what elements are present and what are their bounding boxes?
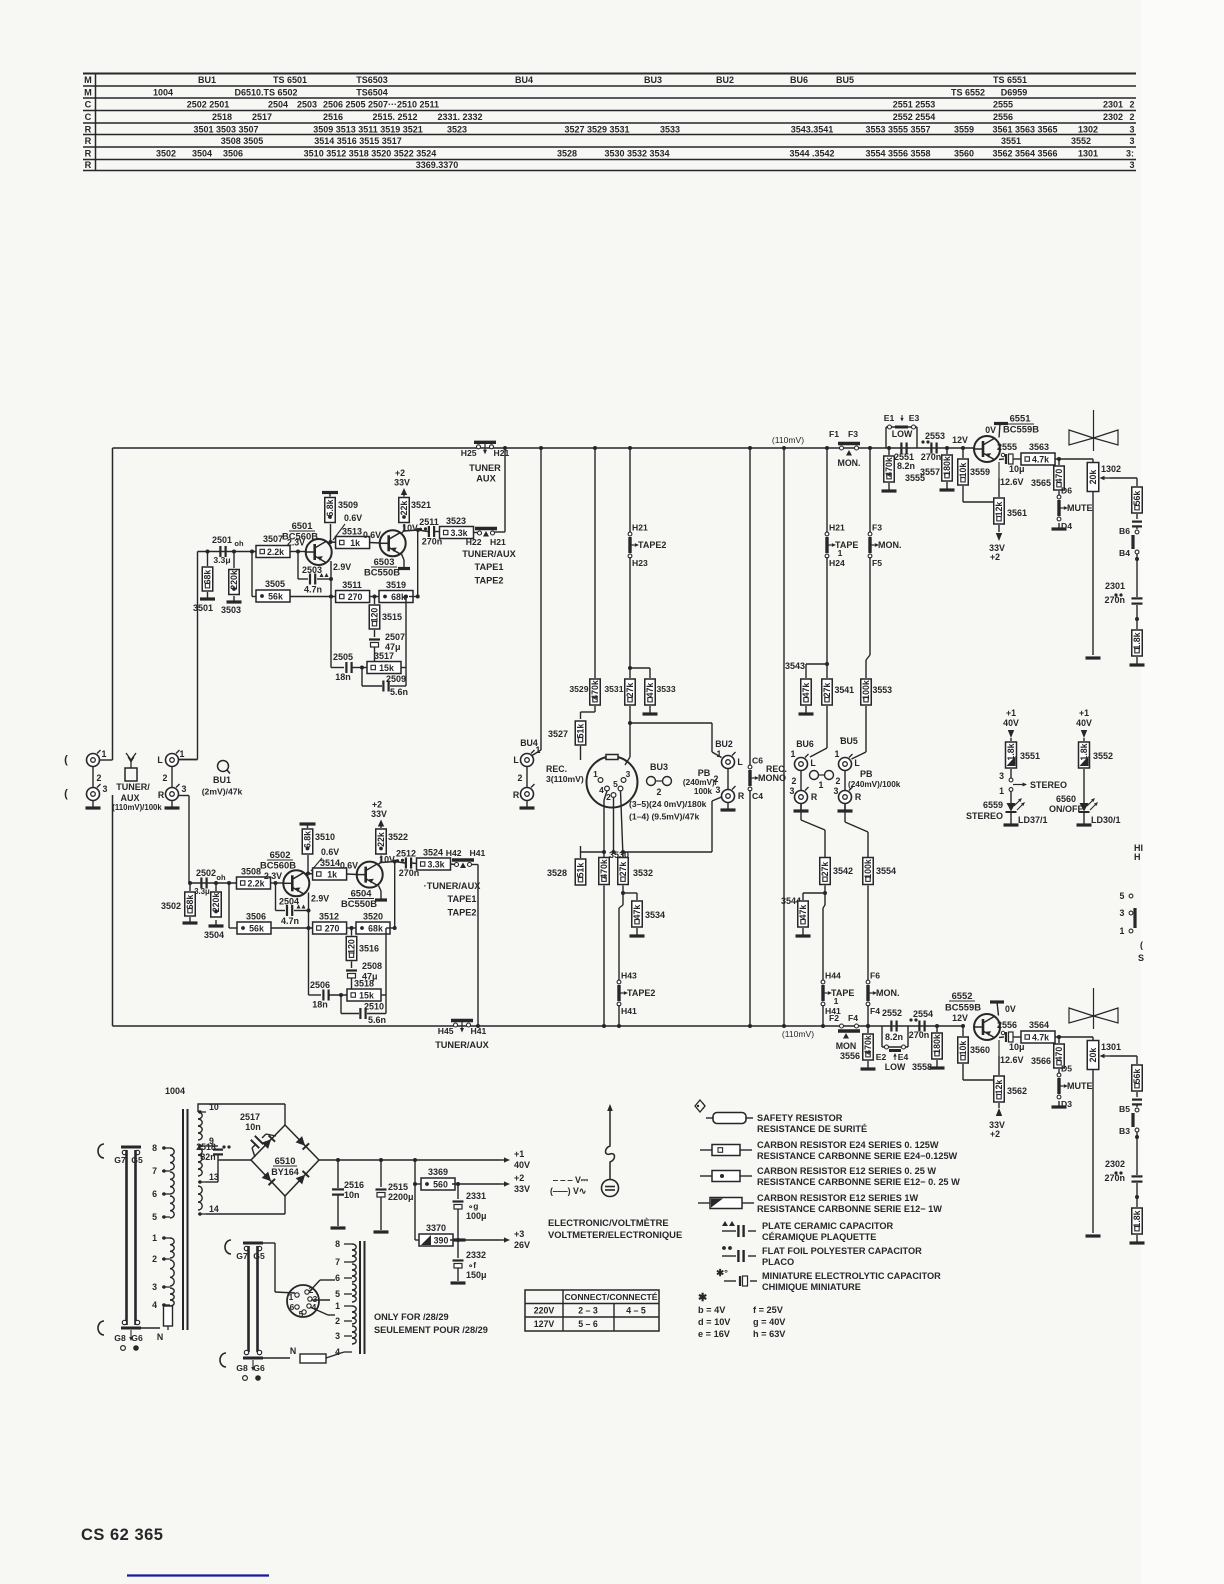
svg-text:H21: H21: [829, 523, 845, 533]
svg-text:d = 10V: d = 10V: [698, 1317, 731, 1327]
resistor 3514 1k: [308, 873, 317, 876]
svg-text:3521: 3521: [411, 500, 431, 510]
svg-text:3558: 3558: [912, 1062, 932, 1072]
connector BU4 R pin3: [521, 788, 534, 801]
svg-text:3370: 3370: [426, 1223, 446, 1233]
svg-text:20k: 20k: [1088, 1048, 1098, 1063]
svg-text:5 – 6: 5 – 6: [578, 1319, 598, 1329]
wire +3 rail: [450, 1239, 500, 1241]
svg-text:G8: G8: [236, 1363, 248, 1373]
svg-text:3.3μ: 3.3μ: [213, 555, 230, 565]
svg-text:270n: 270n: [1104, 1173, 1125, 1183]
wire 3541 to BU6: [826, 706, 828, 748]
svg-text:TS 6552: TS 6552: [951, 87, 985, 97]
svg-text:BC550B: BC550B: [341, 898, 377, 909]
svg-text:5: 5: [299, 1309, 304, 1319]
svg-text:3520: 3520: [363, 912, 383, 922]
svg-text:F4: F4: [870, 1006, 880, 1016]
svg-text:0.6V: 0.6V: [344, 513, 362, 523]
svg-text:BY164: BY164: [271, 1167, 299, 1177]
svg-text:4 – 5: 4 – 5: [626, 1306, 646, 1316]
svg-text:100k: 100k: [694, 787, 713, 796]
switch head C6/MONO/C4: [748, 770, 751, 786]
antenna symbol: [125, 768, 137, 781]
svg-text:MUTE: MUTE: [1067, 503, 1093, 513]
svg-text:2: 2: [606, 792, 611, 802]
ground 3533: [649, 706, 651, 714]
svg-text:F4: F4: [848, 1013, 858, 1023]
svg-text:2301: 2301: [1103, 99, 1123, 109]
svg-text:CARBON RESISTOR E12 SERIES: CARBON RESISTOR E12 SERIES 0. 25 W: [757, 1166, 936, 1176]
wire 3554 down to F6 switch: [867, 886, 869, 983]
svg-text:CARBON RESISTOR E12 SERIES: CARBON RESISTOR E12 SERIES 1W: [757, 1193, 918, 1203]
svg-text:3551: 3551: [1001, 136, 1021, 146]
svg-text:(110mV): (110mV): [782, 1029, 814, 1039]
resistor 3369 560: [413, 1158, 417, 1162]
resistor 3501 68k: [207, 552, 209, 567]
svg-text:C6: C6: [752, 756, 763, 766]
wire 3506 to 3512: [271, 927, 317, 929]
svg-text:1.8k: 1.8k: [1132, 1210, 1142, 1227]
svg-text:BU5: BU5: [836, 75, 854, 85]
resistor 3518 15k: [329, 994, 347, 996]
wire 6501 emitter to junction: [328, 542, 331, 543]
svg-text:33V: 33V: [371, 809, 387, 819]
svg-text:1: 1: [999, 786, 1004, 796]
svg-text:L: L: [854, 758, 860, 768]
svg-text:B4: B4: [1119, 548, 1130, 558]
ground L/R connector: [171, 801, 173, 808]
svg-text:E1: E1: [884, 413, 895, 423]
wire 3505 to 3511: [290, 596, 339, 598]
wire 3530 down to bottom bus: [603, 886, 605, 1027]
svg-text:S: S: [1138, 953, 1144, 963]
svg-text:3512: 3512: [319, 912, 339, 922]
svg-text:RESISTANCE CARBONNE SERIE E: RESISTANCE CARBONNE SERIE E12− 1W: [757, 1204, 942, 1214]
svg-text:CÉRAMIQUE PLAQUETTE: CÉRAMIQUE PLAQUETTE: [762, 1231, 876, 1242]
ground BU6: [800, 804, 802, 811]
svg-text:F3: F3: [848, 429, 858, 439]
ground 2515: [374, 1230, 389, 1233]
blue reference line: [127, 1574, 269, 1576]
switch H42/H41: [451, 863, 456, 866]
svg-text:+2: +2: [990, 1129, 1000, 1139]
svg-text:TUNER/AUX: TUNER/AUX: [435, 1040, 489, 1050]
svg-text:H43: H43: [621, 971, 637, 981]
svg-text:3527 3529 3531: 3527 3529 3531: [564, 124, 629, 134]
connector BU4 link: [526, 767, 528, 788]
ground BU2: [727, 803, 729, 810]
svg-text:M: M: [84, 87, 92, 97]
svg-text:H21: H21: [490, 537, 506, 547]
wire 2508 to row 995: [351, 978, 353, 995]
svg-text:270: 270: [348, 592, 363, 602]
svg-text:4: 4: [152, 1300, 157, 1310]
svg-text:+1: +1: [1006, 708, 1016, 718]
svg-text:3369: 3369: [428, 1167, 448, 1177]
svg-text:2505: 2505: [333, 652, 353, 662]
resistor 1.8k 1.8k: [1136, 1183, 1138, 1207]
svg-text:RESISTANCE CARBONNE SERIE: RESISTANCE CARBONNE SERIE E12− 0. 25 W: [757, 1177, 960, 1187]
svg-text:6510: 6510: [275, 1155, 296, 1166]
svg-text:e = 16V: e = 16V: [698, 1329, 731, 1339]
ground 2332: [451, 1281, 466, 1284]
svg-text:b = 4V: b = 4V: [698, 1305, 726, 1315]
wire 6501 collector down: [329, 561, 331, 563]
fuse T2: [263, 1357, 290, 1359]
svg-text:2555: 2555: [993, 99, 1013, 109]
svg-text:2503: 2503: [302, 565, 322, 575]
svg-text:G6: G6: [131, 1333, 143, 1343]
wire row852 to BU2 pin3: [623, 851, 712, 853]
wire 3518 to column 383: [381, 994, 386, 996]
transformer T1 secondary winding: [198, 1112, 202, 1119]
svg-text:M: M: [84, 75, 92, 85]
svg-text:BU4: BU4: [515, 75, 533, 85]
wire 6503 collector node to cap: [404, 530, 418, 531]
svg-text:G5: G5: [131, 1155, 143, 1165]
connector BU6 link: [800, 771, 802, 791]
supply bar 3509: [322, 491, 338, 494]
svg-text:12k: 12k: [994, 502, 1004, 517]
svg-text:N: N: [157, 1332, 163, 1342]
svg-text:3561 3563 3565: 3561 3563 3565: [992, 124, 1057, 134]
resistor 3528 51k: [580, 852, 582, 858]
svg-text:G5: G5: [253, 1251, 265, 1261]
ground 2331: [451, 1238, 466, 1241]
symbol headphone output: [1093, 988, 1095, 1029]
svg-text:2331: 2331: [466, 1191, 486, 1201]
node junction dots on bottom bus: [476, 1024, 480, 1028]
svg-text:2: 2: [657, 787, 662, 797]
svg-text:B3: B3: [1119, 1126, 1130, 1136]
svg-text:120: 120: [370, 608, 380, 623]
wire v750 top bus to MONO switch: [749, 448, 751, 767]
resistor 3503 220k: [232, 550, 236, 554]
svg-text:SAFETY RESISTOR: SAFETY RESISTOR: [757, 1113, 843, 1123]
svg-text:LOW: LOW: [885, 1062, 906, 1072]
svg-text:14: 14: [209, 1204, 219, 1214]
svg-text:ON/OFF: ON/OFF: [1049, 804, 1083, 814]
svg-text:E3: E3: [909, 413, 920, 423]
legend flat foil polyester capacitor: [722, 1246, 726, 1250]
svg-text:1302: 1302: [1101, 464, 1121, 474]
ground output column 6551: [1136, 657, 1138, 665]
svg-text:4.7k: 4.7k: [1032, 454, 1049, 464]
svg-text:2.9V: 2.9V: [333, 562, 351, 572]
svg-text:1: 1: [835, 749, 840, 759]
capacitor 2505 18n: [345, 662, 347, 673]
svg-text:2: 2: [335, 1316, 340, 1326]
svg-text:3559: 3559: [970, 467, 990, 477]
svg-text:L: L: [810, 758, 816, 768]
svg-text:10k: 10k: [958, 463, 968, 478]
wire v630 from top bus: [629, 448, 631, 533]
svg-text:470k: 470k: [590, 680, 600, 700]
resistor 3522 22k: [379, 863, 382, 865]
svg-text:4: 4: [599, 785, 604, 795]
svg-text:3:: 3:: [1126, 148, 1134, 158]
wire channel-2 feedback row: [228, 883, 230, 928]
switch E2/E4 LOW filter: [881, 1026, 883, 1047]
svg-text:2517: 2517: [240, 1112, 260, 1122]
wire H43 switch to bottom bus: [618, 1005, 620, 1026]
switch B5/B3: [1136, 1104, 1138, 1107]
svg-text:MUTE: MUTE: [1067, 1081, 1093, 1091]
LED 6560 ON/OFF LD30/1: [1083, 769, 1085, 803]
svg-text:STEREO: STEREO: [966, 811, 1003, 821]
svg-text:6.8k: 6.8k: [303, 831, 313, 848]
ground 3504: [215, 920, 217, 926]
wire 3542 down to H44 switch: [824, 886, 826, 894]
svg-text:27k: 27k: [822, 683, 832, 698]
wire BU6 pin3 down to 3542: [800, 804, 802, 821]
capacitor 2551 8.2n: [900, 443, 902, 454]
capacitor 2556 10u electrolytic: [999, 1036, 1004, 1039]
svg-text:3517: 3517: [374, 651, 394, 661]
svg-text:ONLY FOR /28/29: ONLY FOR /28/29: [374, 1312, 449, 1322]
wire 6504 collector node: [381, 862, 395, 863]
svg-text:26V: 26V: [514, 1240, 530, 1250]
svg-text:C: C: [85, 112, 92, 122]
svg-text:3.3k: 3.3k: [427, 859, 444, 869]
resistor 3509 6.8k emitter: [330, 524, 332, 542]
svg-text:22k: 22k: [399, 501, 409, 516]
svg-text:g = 40V: g = 40V: [753, 1317, 786, 1327]
svg-text:LD37/1: LD37/1: [1018, 815, 1048, 825]
svg-text:4.7n: 4.7n: [281, 916, 299, 926]
svg-text:1004: 1004: [165, 1086, 185, 1096]
resistor 3556 470k: [867, 1026, 869, 1033]
symbol tape reels BU5: [810, 771, 819, 780]
svg-text:3510 3512 3518 3520 3522 35: 3510 3512 3518 3520 3522 3524: [304, 148, 437, 158]
capacitor 2553 270n: [930, 443, 932, 454]
svg-text:∘f: ∘f: [468, 1260, 476, 1270]
svg-text:15k: 15k: [359, 990, 374, 1000]
capacitor 2504 4.7n feedback: [275, 883, 277, 911]
svg-text:2: 2: [163, 773, 168, 783]
resistor 3504 220k: [214, 881, 218, 885]
transistor 6502 BC560B: [283, 870, 309, 896]
capacitor 2516 10n: [336, 1158, 340, 1162]
svg-text:6552: 6552: [952, 990, 973, 1001]
wire 6504 emitter to ground bar: [379, 886, 382, 892]
svg-text:8.2n: 8.2n: [897, 461, 915, 471]
switch H45/H41 TUNER/AUX: [451, 1019, 473, 1022]
svg-text:BU6: BU6: [790, 75, 808, 85]
svg-text:1: 1: [335, 1301, 340, 1311]
svg-text:REC.: REC.: [546, 764, 567, 774]
svg-text:56k: 56k: [1132, 1069, 1142, 1084]
wire 2507 down to row 667: [374, 647, 376, 668]
svg-text:15k: 15k: [379, 663, 394, 673]
svg-text:CONNECT/CONNECTÉ: CONNECT/CONNECTÉ: [564, 1292, 657, 1302]
svg-text:3519: 3519: [386, 580, 406, 590]
resistor 3508 2.2k: [227, 881, 231, 885]
svg-text:2504: 2504: [268, 99, 288, 109]
connector BU6 pin3: [795, 791, 808, 804]
symbol headphone output: [1093, 410, 1095, 451]
svg-text:0V: 0V: [1005, 1004, 1016, 1014]
resistor 3524 3.3k: [412, 862, 418, 865]
resistor 3523 3.3k: [435, 531, 441, 533]
legend safety resistor symbol: [695, 1100, 705, 1112]
svg-text:6502: 6502: [270, 849, 291, 860]
svg-text:2.2k: 2.2k: [247, 878, 264, 888]
svg-text:H41: H41: [470, 848, 486, 858]
svg-text:(110mV)/100k: (110mV)/100k: [112, 803, 162, 812]
svg-text:3553 3555 3557: 3553 3555 3557: [865, 124, 930, 134]
capacitor 2510 5.6n loop: [340, 995, 342, 1014]
svg-text:390: 390: [434, 1235, 449, 1245]
svg-text:REC.: REC.: [766, 764, 787, 774]
wire DIN pin4 to 3530: [604, 791, 607, 800]
svg-text:1.8k: 1.8k: [1132, 632, 1142, 649]
svg-text:470: 470: [1054, 469, 1064, 484]
svg-text:3: 3: [1129, 124, 1134, 134]
svg-text:3514 3516 3515 3517: 3514 3516 3515 3517: [314, 136, 402, 146]
wire 3527 to DIN: [580, 746, 582, 760]
wire ch2 collector column to row 995: [308, 928, 310, 995]
svg-text:5: 5: [613, 779, 618, 789]
svg-text:1301: 1301: [1078, 148, 1098, 158]
svg-text:3506: 3506: [223, 148, 243, 158]
resistor 3531 27k: [629, 668, 631, 678]
svg-text:6551: 6551: [1010, 413, 1031, 424]
wire 20k to ground: [1092, 492, 1094, 655]
svg-text:2506: 2506: [310, 980, 330, 990]
svg-text:3533: 3533: [657, 684, 676, 694]
svg-text:h = 63V: h = 63V: [753, 1329, 786, 1339]
svg-text:(240mV)/: (240mV)/: [683, 778, 718, 787]
supply arrow 33V +2: [998, 525, 1000, 532]
svg-text:7: 7: [152, 1166, 157, 1176]
svg-text:2506 2505 2507···2510 2511: 2506 2505 2507···2510 2511: [323, 99, 439, 109]
svg-text:5: 5: [1120, 891, 1125, 901]
wire T1 tap13 to bridge left: [206, 1181, 218, 1183]
wire 3520 to right column ch2: [386, 927, 395, 929]
capacitor output column 6552: [1136, 1092, 1138, 1097]
svg-text:2507: 2507: [385, 632, 405, 642]
svg-text:3560: 3560: [970, 1045, 990, 1055]
wire T1 to bridge top: [205, 1103, 285, 1105]
resistor 3507 2.2k: [250, 550, 254, 554]
svg-text:2553: 2553: [925, 431, 945, 441]
svg-text:CS 62 365: CS 62 365: [81, 1526, 163, 1544]
svg-text:3532: 3532: [633, 868, 653, 878]
resistor 3511 270: [336, 591, 370, 603]
connector TUNER/AUX pin 3: [87, 788, 100, 801]
svg-text:100μ: 100μ: [466, 1211, 487, 1221]
svg-text:SEULEMENT POUR /28/29: SEULEMENT POUR /28/29: [374, 1325, 488, 1335]
svg-text:2: 2: [836, 776, 841, 786]
svg-text:3: 3: [626, 769, 631, 779]
resistor 3542 27k: [820, 858, 831, 885]
svg-text:1k: 1k: [327, 869, 337, 879]
svg-text:2: 2: [714, 774, 719, 784]
svg-text:6.8k: 6.8k: [325, 499, 335, 516]
svg-text:3: 3: [716, 785, 721, 795]
svg-text:1301: 1301: [1101, 1042, 1121, 1052]
svg-text:3501 3503 3507: 3501 3503 3507: [193, 124, 258, 134]
svg-text:8: 8: [335, 1239, 340, 1249]
wire pot wiper to output column: [1110, 477, 1137, 479]
svg-text:3504: 3504: [192, 148, 212, 158]
svg-text:0.6V: 0.6V: [340, 861, 358, 871]
svg-text:H41: H41: [471, 1026, 487, 1036]
connector L pin 1: [166, 754, 179, 767]
capacitor 2332 150u: [456, 1238, 460, 1242]
svg-text:TAPE2: TAPE2: [627, 988, 655, 998]
svg-text:2556: 2556: [993, 112, 1013, 122]
svg-text:3565: 3565: [1031, 478, 1051, 488]
svg-text:3554: 3554: [876, 866, 896, 876]
svg-text:1: 1: [180, 749, 185, 759]
resistor 3541 27k: [826, 664, 828, 678]
svg-text:3528: 3528: [557, 148, 577, 158]
svg-text:3: 3: [1129, 136, 1134, 146]
svg-text:oh: oh: [234, 539, 244, 548]
svg-text:51k: 51k: [576, 724, 586, 739]
svg-text:10n: 10n: [245, 1122, 261, 1132]
svg-text:82n: 82n: [200, 1152, 215, 1162]
svg-text:6: 6: [335, 1273, 340, 1283]
svg-text:+3: +3: [514, 1229, 524, 1239]
svg-text:D6: D6: [1061, 486, 1072, 496]
svg-text:CARBON RESISTOR E24 SERIES: CARBON RESISTOR E24 SERIES 0. 125W: [757, 1140, 939, 1150]
svg-text:TUNER/: TUNER/: [116, 782, 150, 792]
svg-text:2: 2: [97, 773, 102, 783]
transformer T2 core: [359, 1241, 361, 1354]
svg-text:27k: 27k: [625, 683, 635, 698]
svg-text:40V: 40V: [1003, 718, 1019, 728]
connector R pin 3: [166, 788, 179, 801]
svg-text:2: 2: [792, 776, 797, 786]
svg-text:12.6V: 12.6V: [1000, 1055, 1024, 1065]
svg-text:5.6n: 5.6n: [390, 687, 408, 697]
svg-text:3514: 3514: [320, 858, 340, 868]
svg-text:3527: 3527: [548, 729, 568, 739]
svg-text:R: R: [738, 791, 745, 801]
svg-text:27k: 27k: [820, 862, 830, 877]
svg-text:MON.: MON.: [838, 458, 861, 468]
svg-text:3505: 3505: [265, 579, 285, 589]
svg-text:VOLTMETER/ELECTRONIQUE: VOLTMETER/ELECTRONIQUE: [548, 1229, 682, 1240]
svg-text:56k: 56k: [249, 923, 264, 933]
resistor 3510 6.8k: [307, 855, 309, 874]
resistor 3551 1.8k: [1006, 742, 1017, 768]
connector BU5 link: [844, 771, 846, 791]
ground output column 6552: [1136, 1235, 1138, 1243]
resistor 3512 270: [313, 922, 347, 934]
svg-text:3515: 3515: [382, 612, 402, 622]
svg-text:(2mV)/47k: (2mV)/47k: [202, 787, 243, 797]
svg-text:3: 3: [182, 784, 187, 794]
svg-text:L: L: [513, 755, 519, 765]
svg-text:120: 120: [347, 939, 357, 954]
capacitor output column 6551: [1136, 514, 1138, 519]
wire MONO switch to bottom bus: [749, 790, 751, 1026]
switch H25/H21 TUNER AUX: [474, 441, 496, 444]
transistor 6552 BC559B: [974, 1014, 1000, 1040]
wire 3529 to 3527: [594, 706, 596, 712]
svg-text:3518: 3518: [354, 979, 374, 989]
mains lead-in T2: [225, 1240, 231, 1254]
ground mute switch: [1058, 523, 1060, 529]
resistor 3563 4.7k: [1014, 458, 1022, 460]
svg-text:33V: 33V: [394, 478, 410, 488]
svg-text:H25: H25: [461, 448, 477, 458]
